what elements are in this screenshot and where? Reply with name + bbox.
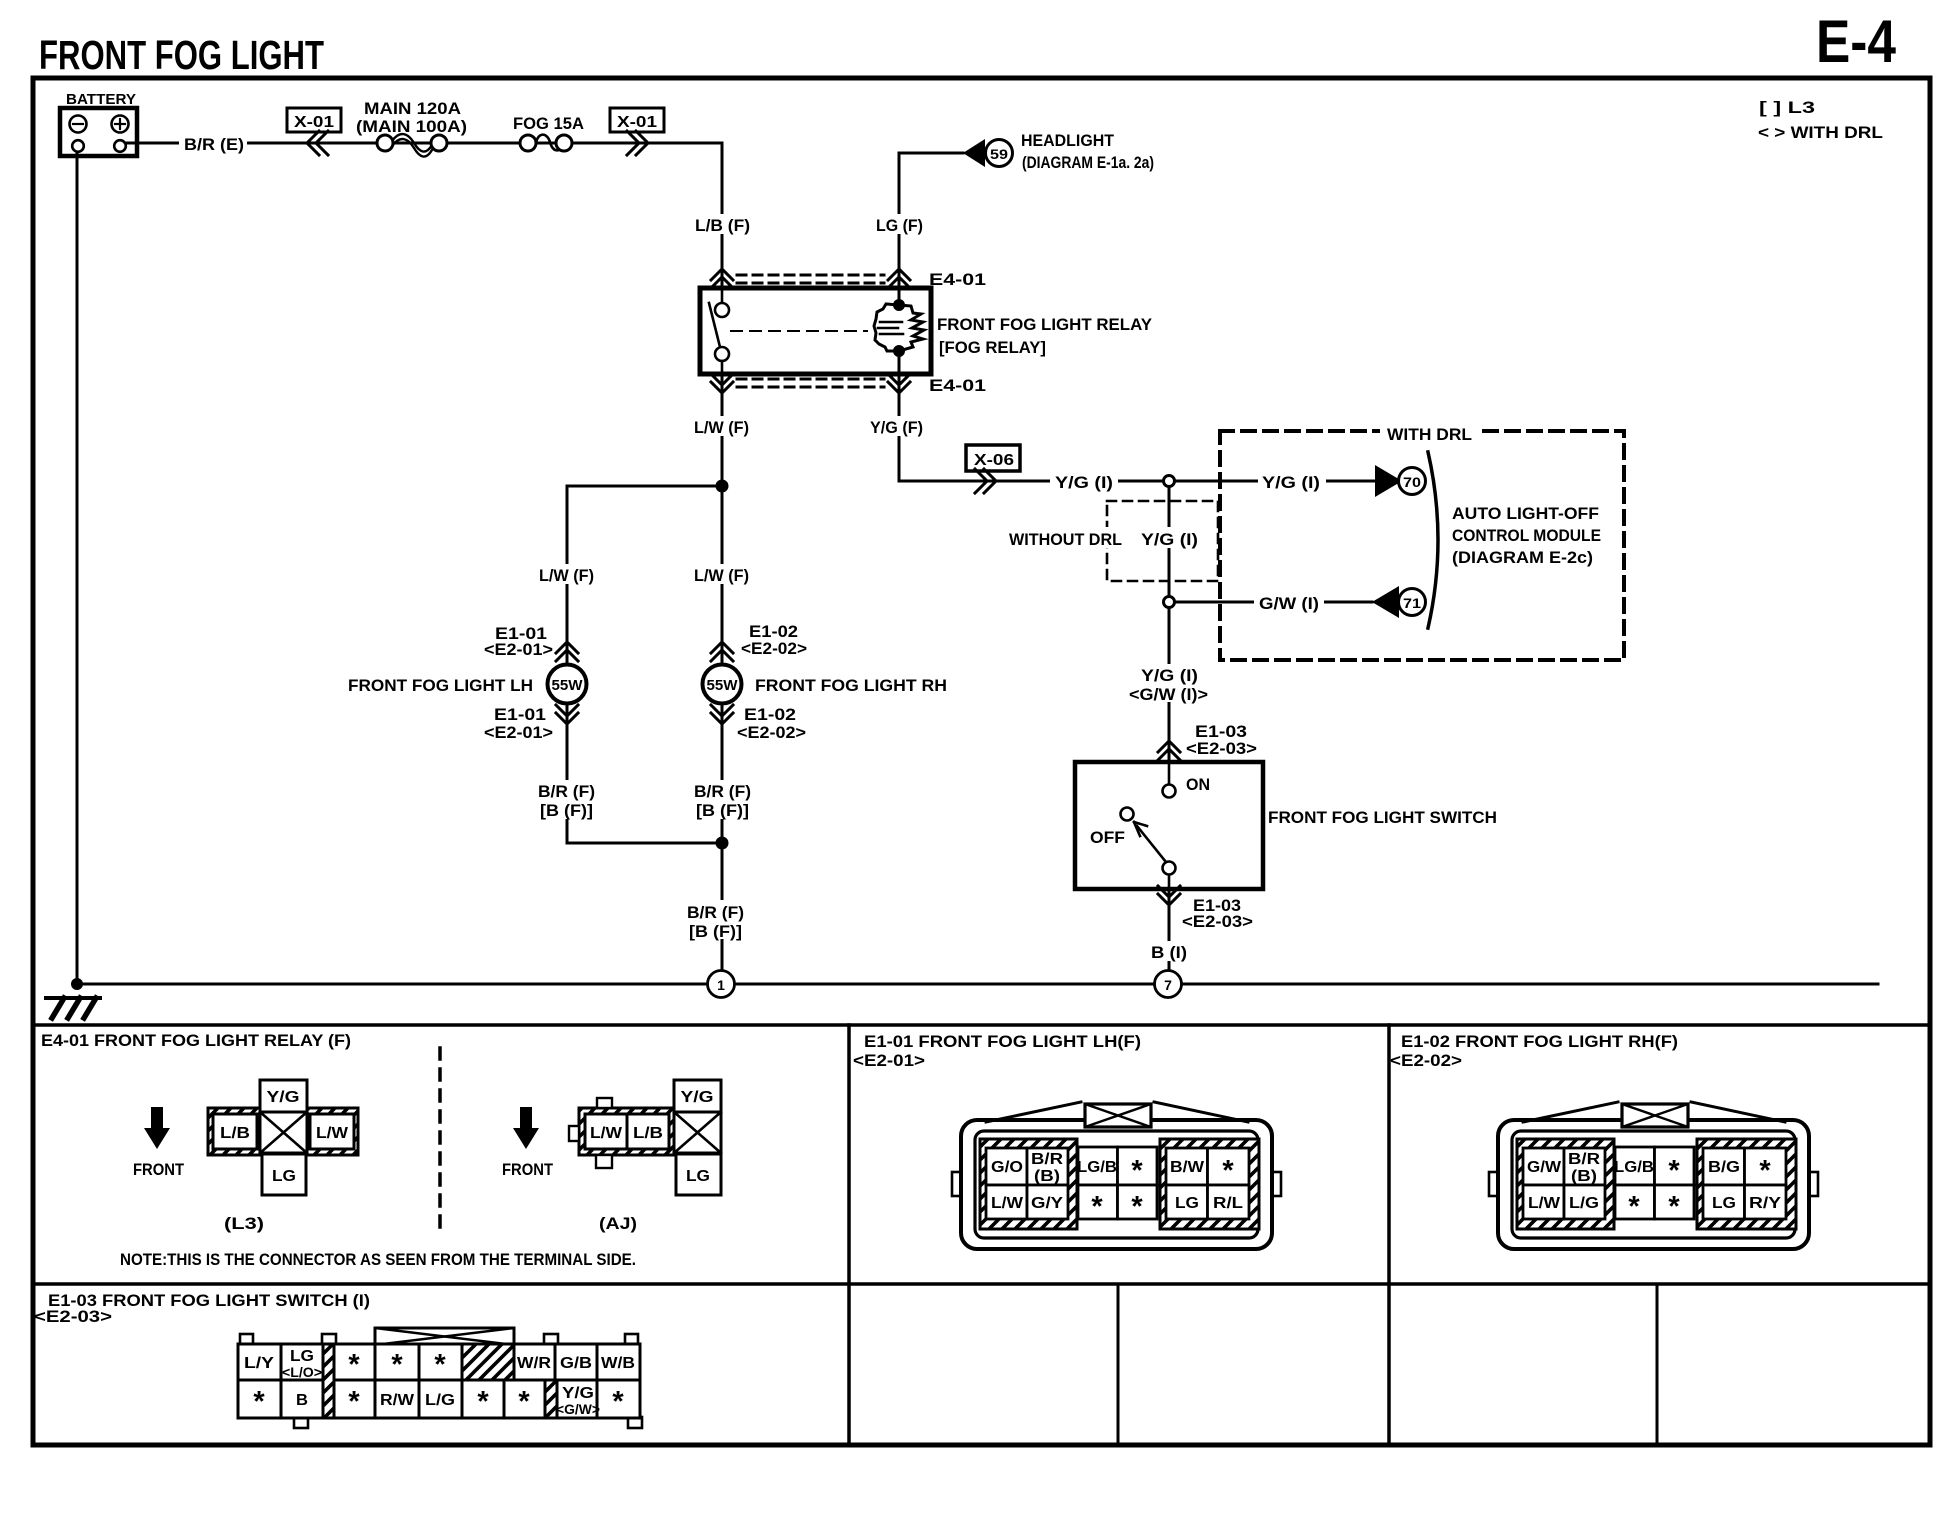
- svg-text:*: *: [391, 1349, 403, 1381]
- svg-text:(MAIN 100A): (MAIN 100A): [356, 117, 467, 136]
- svg-text:L/G: L/G: [425, 1392, 455, 1409]
- section divider vertical x=1389: [1387, 1025, 1391, 1445]
- ground symbol: [46, 998, 100, 1018]
- svg-text:B (I): B (I): [1151, 943, 1187, 962]
- svg-text:LG: LG: [272, 1168, 296, 1185]
- wire bottom joining bulbs: [567, 842, 722, 845]
- front arrow (L3): [144, 1107, 170, 1149]
- svg-text:*: *: [518, 1386, 530, 1418]
- svg-text:NOTE:THIS IS THE CONNECTOR AS: NOTE:THIS IS THE CONNECTOR AS SEEN FROM …: [120, 1250, 636, 1269]
- arrow 71: [1372, 586, 1399, 618]
- svg-text:70: 70: [1403, 474, 1421, 490]
- svg-text:[B (F)]: [B (F)]: [696, 801, 749, 820]
- connector E1-02 body: [1489, 1102, 1818, 1249]
- svg-text:<E2-03>: <E2-03>: [1186, 739, 1257, 758]
- svg-text:L/W (F): L/W (F): [694, 418, 749, 437]
- svg-text:LG (F): LG (F): [876, 216, 923, 235]
- terminal L/B: [627, 1114, 669, 1149]
- svg-text:CONTROL MODULE: CONTROL MODULE: [1452, 526, 1601, 545]
- svg-text:L/W: L/W: [1528, 1195, 1561, 1212]
- svg-text:<E2-03>: <E2-03>: [34, 1307, 112, 1326]
- svg-text:FRONT FOG LIGHT RELAY: FRONT FOG LIGHT RELAY: [937, 315, 1153, 334]
- svg-text:FRONT FOG LIGHT SWITCH: FRONT FOG LIGHT SWITCH: [1268, 808, 1497, 827]
- E1-01 terminal labels: [991, 1151, 1243, 1223]
- svg-text:E1-01 FRONT FOG LIGHT LH(F): E1-01 FRONT FOG LIGHT LH(F): [864, 1032, 1141, 1051]
- svg-text:B/R: B/R: [1568, 1151, 1601, 1168]
- svg-text:W/R: W/R: [517, 1355, 551, 1372]
- svg-text:< > WITH DRL: < > WITH DRL: [1758, 123, 1883, 142]
- small tabs: [597, 1098, 612, 1108]
- svg-text:B/R (F): B/R (F): [538, 782, 595, 801]
- connector X-01 (right): [610, 108, 664, 132]
- svg-text:E4-01: E4-01: [929, 376, 986, 395]
- svg-text:59: 59: [990, 146, 1008, 162]
- svg-text:*: *: [1668, 1191, 1680, 1223]
- svg-text:[FOG RELAY]: [FOG RELAY]: [939, 338, 1046, 357]
- svg-text:L/W (F): L/W (F): [539, 566, 594, 585]
- connector E1-01 body: [952, 1102, 1281, 1249]
- svg-text:G/B: G/B: [560, 1355, 592, 1372]
- wire down to ground circle 1: [721, 843, 724, 969]
- switch connector grid: [238, 1344, 640, 1418]
- svg-text:R/W: R/W: [380, 1392, 415, 1409]
- svg-text:<E2-01>: <E2-01>: [853, 1051, 925, 1070]
- section divider vertical x=1118 bottom row: [1117, 1284, 1120, 1445]
- wire label Y/G (I) <G/W (I)>: [1124, 664, 1214, 702]
- svg-text:L/W: L/W: [316, 1125, 349, 1142]
- svg-text:*: *: [253, 1386, 265, 1418]
- svg-text:X-01: X-01: [294, 114, 334, 131]
- MAIN DIAGRAM: [77, 143, 1878, 984]
- ground bus line: [77, 983, 1878, 986]
- terminal L/W: [585, 1114, 627, 1149]
- svg-text:LG/B: LG/B: [1077, 1159, 1117, 1176]
- svg-text:[B (F)]: [B (F)]: [540, 801, 593, 820]
- svg-text:FRONT FOG LIGHT LH: FRONT FOG LIGHT LH: [348, 676, 533, 695]
- svg-text:X-06: X-06: [974, 452, 1014, 469]
- svg-text:B/R (E): B/R (E): [184, 135, 244, 154]
- svg-text:*: *: [434, 1349, 446, 1381]
- wire right bulb top: [721, 486, 724, 663]
- svg-text:LG: LG: [1712, 1195, 1736, 1212]
- svg-text:*: *: [1759, 1155, 1771, 1187]
- crossed terminal: [674, 1112, 721, 1153]
- svg-text:<E2-01>: <E2-01>: [484, 640, 553, 659]
- svg-text:Y/G: Y/G: [562, 1385, 594, 1402]
- svg-text:L/W: L/W: [991, 1195, 1024, 1212]
- svg-text:L/G: L/G: [1569, 1195, 1599, 1212]
- svg-text:(B): (B): [1571, 1168, 1597, 1185]
- wire left bulb top: [566, 486, 569, 663]
- svg-text:(L3): (L3): [224, 1214, 264, 1233]
- svg-text:[ ] L3: [ ] L3: [1759, 98, 1815, 117]
- switch box FRONT FOG LIGHT SWITCH: [1075, 762, 1263, 889]
- svg-text:<G/W>: <G/W>: [556, 1401, 600, 1417]
- svg-text:B/W: B/W: [1170, 1159, 1205, 1176]
- svg-text:B/R (F): B/R (F): [687, 903, 744, 922]
- svg-text:<E2-01>: <E2-01>: [484, 723, 553, 742]
- wire label B (I): [1146, 941, 1192, 961]
- wire label B/R (F) [B (F)] ground lead: [684, 900, 752, 939]
- wire label L/W (F) left bulb: [536, 564, 598, 584]
- connector E1-02 chevrons below right bulb: [711, 705, 733, 724]
- small dashed box WITHOUT DRL: [1107, 501, 1218, 581]
- wire label L/B (F): [692, 214, 754, 234]
- big dashed box WITH DRL: [1220, 431, 1624, 660]
- svg-text:E1-02 FRONT FOG LIGHT RH(F): E1-02 FRONT FOG LIGHT RH(F): [1401, 1032, 1678, 1051]
- ground junction dot: [71, 978, 83, 990]
- svg-text:ON: ON: [1186, 775, 1210, 794]
- svg-text:LG: LG: [1175, 1195, 1199, 1212]
- svg-text:HEADLIGHT: HEADLIGHT: [1021, 131, 1115, 150]
- ground point circle 7: [1155, 971, 1182, 998]
- wire battery negative down to ground bus: [76, 150, 79, 984]
- svg-text:<E2-02>: <E2-02>: [741, 639, 807, 658]
- switch connector tabs: [240, 1334, 642, 1428]
- svg-text:E-4: E-4: [1816, 8, 1897, 75]
- svg-text:Y/G (I): Y/G (I): [1141, 530, 1198, 549]
- svg-text:*: *: [348, 1349, 360, 1381]
- svg-text:Y/G: Y/G: [681, 1089, 714, 1106]
- wire below switch: [1168, 889, 1171, 969]
- brace for control module: [1428, 452, 1438, 628]
- svg-text:L/B (F): L/B (F): [695, 216, 750, 235]
- chevron X-01 left: [307, 131, 328, 155]
- label WITH DRL: [1380, 420, 1480, 442]
- junction G/W open circle: [1164, 597, 1175, 608]
- connector E1-01 chevrons below left bulb: [556, 705, 578, 724]
- svg-text:<E2-02>: <E2-02>: [1390, 1051, 1462, 1070]
- switch connector terminal labels: [244, 1348, 635, 1418]
- connector X-06: [966, 445, 1020, 471]
- svg-text:L/B: L/B: [220, 1125, 250, 1142]
- svg-text:<E2-02>: <E2-02>: [737, 723, 806, 742]
- svg-text:G/Y: G/Y: [1031, 1195, 1063, 1212]
- connector E1-03 chevrons below switch: [1158, 886, 1180, 905]
- svg-text:E1-02: E1-02: [744, 705, 796, 724]
- svg-text:WITHOUT DRL: WITHOUT DRL: [1009, 530, 1122, 549]
- svg-text:<E2-03>: <E2-03>: [1182, 912, 1253, 931]
- section divider vertical x=1657 bottom row: [1656, 1284, 1659, 1445]
- svg-text:(B): (B): [1034, 1168, 1060, 1185]
- wire Y/G below relay to X-06: [899, 374, 1169, 481]
- svg-text:Y/G: Y/G: [267, 1089, 300, 1106]
- svg-text:FRONT: FRONT: [133, 1160, 185, 1179]
- svg-text:B/R: B/R: [1031, 1151, 1064, 1168]
- svg-text:*: *: [612, 1386, 624, 1418]
- svg-text:Y/G (I): Y/G (I): [1262, 473, 1320, 492]
- wire LG headlight branch: [899, 153, 963, 288]
- front arrow (AJ): [513, 1107, 539, 1149]
- svg-text:*: *: [1091, 1191, 1103, 1223]
- svg-text:R/L: R/L: [1213, 1195, 1243, 1212]
- junction Y/G open circle: [1164, 476, 1175, 487]
- svg-text:*: *: [348, 1386, 360, 1418]
- svg-text:FRONT FOG LIGHT: FRONT FOG LIGHT: [39, 32, 324, 78]
- svg-text:Y/G (F): Y/G (F): [870, 418, 923, 437]
- relay coil: [874, 288, 924, 374]
- svg-text:MAIN 120A: MAIN 120A: [364, 99, 461, 118]
- wire label Y/G (I) first: [1050, 470, 1118, 491]
- svg-text:FRONT FOG LIGHT RH: FRONT FOG LIGHT RH: [755, 676, 947, 695]
- junction dot bulbs bottom: [716, 837, 729, 850]
- crossed terminal: [260, 1112, 307, 1153]
- svg-text:L/Y: L/Y: [244, 1355, 274, 1372]
- wire label L/W (F) below relay: [690, 416, 752, 436]
- wire label Y/G (F) below relay: [867, 416, 927, 436]
- svg-text:LG/B: LG/B: [1614, 1159, 1654, 1176]
- wire L/W below relay: [721, 374, 724, 486]
- wire left bulb bottom: [566, 705, 569, 843]
- wire Y/G vertical without DRL: [1168, 481, 1171, 762]
- svg-text:71: 71: [1403, 595, 1421, 611]
- svg-text:FRONT: FRONT: [502, 1160, 554, 1179]
- svg-text:E1-01: E1-01: [494, 705, 546, 724]
- dashed separator between L3 and AJ views: [438, 1048, 442, 1235]
- svg-text:*: *: [1668, 1155, 1680, 1187]
- svg-text:L/W (F): L/W (F): [694, 566, 749, 585]
- svg-text:*: *: [1131, 1155, 1143, 1187]
- relay switch contact: [709, 288, 867, 374]
- label WITHOUT DRL Y/G (I): [1004, 527, 1202, 548]
- wire L/B vertical down to relay: [721, 143, 724, 288]
- svg-text:Y/G (I): Y/G (I): [1141, 666, 1198, 685]
- svg-text:*: *: [477, 1386, 489, 1418]
- svg-text:(DIAGRAM E-1a. 2a): (DIAGRAM E-1a. 2a): [1022, 153, 1154, 172]
- svg-text:G/O: G/O: [991, 1159, 1023, 1176]
- wire label Y/G (I) second: [1258, 470, 1326, 491]
- wire label L/W (F) right bulb: [691, 564, 753, 584]
- svg-text:*: *: [1222, 1155, 1234, 1187]
- section divider vertical x=849: [847, 1025, 851, 1445]
- svg-text:7: 7: [1164, 977, 1172, 993]
- wire Y/G to arrow 70: [1169, 480, 1375, 483]
- connector E4-01 top chevrons and dashes: [711, 269, 910, 288]
- svg-text:L/B: L/B: [633, 1125, 663, 1142]
- svg-text:Y/G (I): Y/G (I): [1055, 473, 1113, 492]
- svg-text:(DIAGRAM E-2c): (DIAGRAM E-2c): [1452, 548, 1593, 567]
- relay connector AJ view: [569, 1080, 721, 1195]
- wire label G/W (I): [1254, 591, 1324, 612]
- svg-text:BATTERY: BATTERY: [66, 91, 136, 108]
- svg-text:G/W: G/W: [1527, 1159, 1562, 1176]
- wire label LG (F): [872, 214, 926, 234]
- connector E4-01 bottom chevrons and dashes: [711, 374, 910, 393]
- svg-text:WITH DRL: WITH DRL: [1387, 425, 1472, 444]
- svg-text:R/Y: R/Y: [1749, 1195, 1781, 1212]
- svg-text:1: 1: [717, 977, 725, 993]
- svg-text:AUTO LIGHT-OFF: AUTO LIGHT-OFF: [1452, 504, 1599, 523]
- svg-text:55W: 55W: [552, 678, 583, 694]
- svg-text:OFF: OFF: [1090, 828, 1125, 847]
- bulb FRONT FOG LIGHT RH 55W: [703, 665, 742, 704]
- junction dot L/W branch: [716, 480, 729, 493]
- connector X-01 (left): [287, 108, 341, 132]
- svg-text:B: B: [296, 1392, 308, 1409]
- wire battery to X-01 fuse row: [126, 142, 722, 145]
- E1-02 terminal labels: [1527, 1151, 1781, 1223]
- terminal L/B: [213, 1114, 257, 1149]
- chevron X-01 right: [627, 131, 648, 155]
- svg-text:B/R (F): B/R (F): [694, 782, 751, 801]
- battery: [60, 91, 137, 156]
- wire label B/R (E): [179, 132, 247, 153]
- svg-text:E4-01 FRONT FOG LIGHT RELAY (F: E4-01 FRONT FOG LIGHT RELAY (F): [41, 1031, 351, 1050]
- svg-text:[B (F)]: [B (F)]: [689, 922, 742, 941]
- wire label B/R (F) [B (F)] right: [690, 780, 756, 819]
- svg-text:G/W (I): G/W (I): [1259, 594, 1319, 613]
- chevron X-06: [975, 469, 996, 493]
- svg-text:X-01: X-01: [617, 114, 657, 131]
- bulb FRONT FOG LIGHT LH 55W: [548, 665, 587, 704]
- switch connector crossed box: [375, 1328, 514, 1345]
- svg-text:L/W: L/W: [590, 1125, 623, 1142]
- section divider horizontal bottom: [33, 1282, 1930, 1286]
- svg-text:<G/W (I)>: <G/W (I)>: [1129, 685, 1208, 704]
- svg-text:LG: LG: [686, 1168, 710, 1185]
- svg-text:*: *: [1131, 1191, 1143, 1223]
- svg-text:*: *: [1628, 1191, 1640, 1223]
- relay box FRONT FOG LIGHT RELAY: [700, 288, 931, 374]
- wire right bulb bottom: [721, 705, 724, 843]
- section divider horizontal top: [33, 1023, 1930, 1027]
- svg-text:55W: 55W: [707, 678, 738, 694]
- svg-text:E4-01: E4-01: [929, 270, 986, 289]
- svg-text:B/G: B/G: [1708, 1159, 1740, 1176]
- terminal L/W: [310, 1114, 354, 1149]
- svg-text:W/B: W/B: [601, 1355, 635, 1372]
- relay connector L3 view: [208, 1080, 358, 1195]
- svg-text:FOG 15A: FOG 15A: [513, 114, 584, 133]
- svg-text:(AJ): (AJ): [599, 1214, 637, 1233]
- wire L/W horizontal branch: [567, 485, 722, 488]
- svg-text:<L/O>: <L/O>: [282, 1364, 322, 1380]
- arrow 70: [1375, 465, 1402, 497]
- arrow 59 to headlight: [963, 139, 985, 167]
- ground point circle 1: [708, 971, 735, 998]
- svg-text:LG: LG: [290, 1348, 314, 1365]
- wire label B/R (F) [B (F)] left: [534, 780, 600, 819]
- connector E1-03 chevrons above switch: [1158, 741, 1180, 760]
- wire G/W to arrow 71: [1169, 601, 1372, 604]
